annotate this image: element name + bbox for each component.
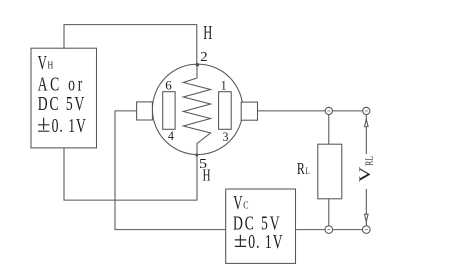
svg-text:DC 5V: DC 5V [38, 93, 87, 115]
wire resistor RL to bottom terminal [328, 199, 330, 230]
label VC line 3: plus-minus 0.1V [235, 235, 246, 247]
sensor right lead tab [241, 102, 257, 120]
svg-text:H: H [48, 60, 54, 73]
terminal node top left [325, 107, 332, 114]
electrode plate left (pins 6-4) [163, 92, 175, 130]
resistor RL body [318, 144, 342, 199]
svg-text:0. 1V: 0. 1V [248, 231, 283, 253]
wire VC box to bottom terminals [296, 229, 367, 231]
tick inside terminal top right [365, 110, 368, 112]
svg-text:3: 3 [223, 129, 229, 143]
svg-text:R: R [297, 160, 305, 179]
wire top terminal to resistor RL [328, 111, 330, 144]
svg-text:0. 1V: 0. 1V [52, 115, 87, 137]
svg-text:V: V [38, 51, 47, 73]
svg-text:L: L [306, 166, 310, 176]
terminal node bottom left [325, 226, 333, 234]
svg-text:6: 6 [165, 79, 172, 93]
wire VH bottom to heater pin 5 [64, 148, 197, 200]
svg-text:H: H [203, 166, 211, 185]
measurement line VRL upper segment [365, 115, 367, 155]
label VH line 1 [38, 51, 54, 73]
electrode plate right (pins 1-3) [219, 92, 232, 130]
tick inside terminal top left [327, 110, 330, 112]
terminal node top right [363, 107, 370, 114]
tick inside terminal bottom right [365, 229, 368, 231]
wire sensor right tab to top terminals [258, 110, 367, 112]
svg-text:1: 1 [221, 78, 227, 92]
svg-text:RL: RL [363, 156, 374, 166]
svg-text:2: 2 [200, 49, 207, 65]
heater coil zigzag (pins 2-5) [183, 65, 210, 155]
wire sensor left tab to VC box [115, 111, 226, 230]
sensor body circle [152, 64, 242, 154]
svg-text:H: H [203, 21, 212, 44]
sensor left lead tab [137, 102, 153, 120]
label VH line 4: plus-minus 0.1V [38, 118, 49, 131]
label resistor RL [297, 160, 310, 179]
voltage source box VC [226, 189, 296, 263]
terminal node bottom right [363, 226, 371, 234]
svg-text:V: V [356, 166, 374, 182]
label VRL rotated [356, 156, 375, 182]
svg-text:4: 4 [168, 129, 174, 143]
measurement line VRL lower segment [365, 189, 367, 226]
svg-text:V: V [233, 191, 242, 213]
voltage source box VH [31, 48, 97, 148]
tick inside terminal bottom left [327, 229, 330, 231]
wire VH top to heater pin 2 [64, 25, 197, 65]
svg-text:C: C [243, 199, 248, 212]
arrowhead up at top terminal [365, 119, 369, 126]
label VC line 1 [233, 191, 248, 213]
svg-text:AC or: AC or [38, 73, 85, 95]
junction dot pin 2 [196, 63, 199, 66]
arrowhead down at bottom terminal [365, 214, 369, 221]
junction dot pin 5 [195, 154, 198, 157]
